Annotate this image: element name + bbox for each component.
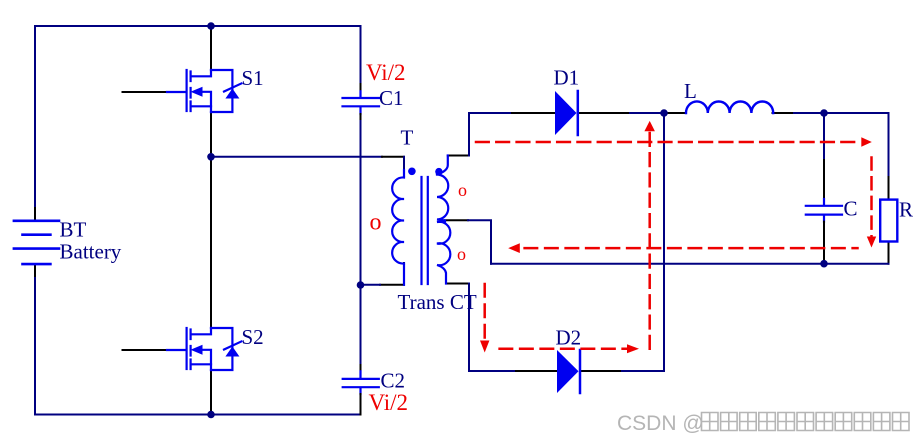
current path dashed top bbox=[476, 141, 858, 144]
arrow down right bbox=[867, 237, 876, 248]
capacitor C2 bbox=[343, 379, 379, 387]
transformer polarity dot secondary bbox=[435, 168, 442, 175]
wire L right pin bbox=[773, 112, 795, 114]
watermark CJK glyph blocks bbox=[702, 413, 910, 431]
wire C1 bottom pin bbox=[360, 114, 362, 121]
wire D2 cathode pin bbox=[581, 370, 623, 372]
wire C2 bottom pin bbox=[360, 394, 362, 415]
svg-text:Vi/2: Vi/2 bbox=[366, 60, 406, 85]
wire C output top stub bbox=[823, 199, 825, 205]
wire C1 to primary-bottom node bbox=[360, 121, 362, 285]
resistor R bbox=[880, 200, 897, 242]
wire D1 cathode pin bbox=[579, 112, 631, 114]
current path dashed up riser bbox=[648, 133, 651, 349]
wire node to primary bottom bbox=[361, 284, 381, 286]
wire R top pin bbox=[888, 177, 890, 200]
svg-text:C1: C1 bbox=[379, 86, 404, 110]
wire S2 source to bottom rail bbox=[210, 370, 212, 415]
svg-text:Battery: Battery bbox=[60, 240, 122, 264]
wire C output branch upper bbox=[823, 113, 825, 160]
wire D2 anode pin bbox=[516, 370, 557, 372]
wire R bottom pin bbox=[888, 242, 890, 264]
wire battery bottom pin bbox=[34, 265, 36, 278]
transformer secondary winding upper bbox=[437, 156, 448, 221]
arrow right top bbox=[861, 137, 872, 146]
wire C1 branch upper bbox=[360, 26, 362, 84]
svg-text:S1: S1 bbox=[242, 66, 264, 90]
wire D1 anode pin bbox=[512, 112, 555, 114]
current path dashed right vertical bbox=[870, 158, 873, 237]
svg-text:o: o bbox=[457, 244, 466, 264]
inductor L bbox=[686, 101, 773, 113]
svg-text:o: o bbox=[458, 180, 467, 200]
wire primary bottom pin bbox=[380, 263, 404, 285]
svg-text:Vi/2: Vi/2 bbox=[369, 390, 409, 415]
wire D2 riser to L node bbox=[663, 113, 665, 371]
transformer T primary top pin bbox=[403, 157, 405, 170]
wire node to C2 bbox=[360, 285, 362, 365]
wire top rail bbox=[35, 25, 361, 27]
junction node mid rail bbox=[207, 153, 215, 161]
wire C output bottom pin bbox=[823, 222, 825, 264]
wire secondary top pin bbox=[448, 155, 469, 157]
current path dashed D2 bottom bbox=[500, 347, 627, 350]
junction node C / bottom rail bbox=[820, 260, 828, 268]
battery BT plates bbox=[14, 221, 59, 264]
transistor Q S1 bbox=[167, 70, 242, 112]
wire transformer primary top pin bbox=[382, 156, 404, 158]
junction node bottom rail / S2 bbox=[207, 411, 215, 419]
arrow down center tap bbox=[480, 341, 489, 353]
svg-text:BT: BT bbox=[60, 218, 87, 242]
capacitor C1 bbox=[343, 98, 380, 106]
wire C1 top pin bbox=[360, 84, 362, 91]
wire output bottom rail bbox=[491, 263, 889, 265]
wire C2 top pin bbox=[360, 365, 362, 371]
wire D2 to riser bbox=[622, 370, 664, 372]
transformer secondary winding lower bbox=[437, 222, 450, 284]
wire battery top pin bbox=[34, 208, 36, 220]
junction node top rail / S1 bbox=[207, 22, 215, 30]
transformer core lines bbox=[422, 177, 428, 284]
wire S1 drain bbox=[210, 26, 212, 70]
wire to D1 anode bbox=[469, 112, 512, 114]
junction node primary bottom / C1C2 bbox=[357, 281, 365, 289]
diode D1 bbox=[555, 91, 577, 135]
junction node L / C bbox=[820, 109, 828, 117]
transistor Q S2 bbox=[167, 328, 242, 370]
transformer T primary winding bbox=[392, 170, 404, 285]
svg-text:Trans CT: Trans CT bbox=[398, 290, 477, 314]
transformer polarity dot primary bbox=[408, 168, 416, 176]
svg-text:S2: S2 bbox=[242, 325, 264, 349]
svg-text:o: o bbox=[370, 210, 382, 236]
current path dashed center tap down bbox=[483, 284, 486, 341]
wire L left pin bbox=[664, 112, 686, 114]
wire C output bottom stub bbox=[823, 216, 825, 222]
capacitor C output bbox=[806, 206, 842, 215]
svg-text:L: L bbox=[684, 79, 697, 103]
wire secondary bottom pin bbox=[446, 283, 469, 285]
current path dashed middle return bbox=[525, 247, 858, 250]
arrow up riser bbox=[644, 121, 655, 131]
svg-text:CSDN @: CSDN @ bbox=[617, 412, 704, 435]
wire C1 top stub bbox=[359, 91, 361, 97]
wire S1 source to mid node bbox=[210, 112, 212, 157]
wire D1 to L node bbox=[630, 112, 664, 114]
wire C output top pin bbox=[823, 160, 825, 199]
svg-text:T: T bbox=[401, 126, 414, 150]
svg-text:D1: D1 bbox=[554, 66, 580, 90]
wire secondary top riser bbox=[468, 113, 470, 156]
wire center tap pin bbox=[445, 219, 468, 221]
wire S2 gate lead bbox=[123, 349, 168, 351]
wire center tap to corner bbox=[468, 220, 491, 263]
wire to D2 anode bbox=[469, 370, 516, 372]
wire L to C node bbox=[794, 112, 824, 114]
svg-text:D2: D2 bbox=[556, 326, 582, 350]
svg-text:C2: C2 bbox=[381, 369, 406, 393]
svg-text:R: R bbox=[899, 198, 913, 222]
wire left vertical (battery bottom) bbox=[34, 278, 36, 415]
junction node D1 / L bbox=[660, 109, 668, 117]
wire mid node to S2 drain bbox=[210, 157, 212, 328]
wire S1 gate lead bbox=[123, 91, 168, 93]
wire bottom rail bbox=[35, 414, 361, 416]
wire mid rail to transformer bbox=[211, 156, 382, 158]
wire C2 bottom stub bbox=[359, 388, 361, 394]
arrow left middle bbox=[508, 243, 520, 253]
wire secondary bottom riser bbox=[468, 284, 470, 372]
svg-text:C: C bbox=[844, 197, 858, 221]
diode D2 bbox=[557, 350, 579, 393]
wire L node to right corner bbox=[824, 112, 889, 114]
arrow right D2 bbox=[627, 344, 639, 353]
wire right corner down to R bbox=[888, 113, 890, 177]
wire left vertical (battery top) bbox=[34, 26, 36, 208]
wire C2 top stub bbox=[359, 371, 361, 378]
wire C1 bottom stub bbox=[359, 107, 361, 114]
